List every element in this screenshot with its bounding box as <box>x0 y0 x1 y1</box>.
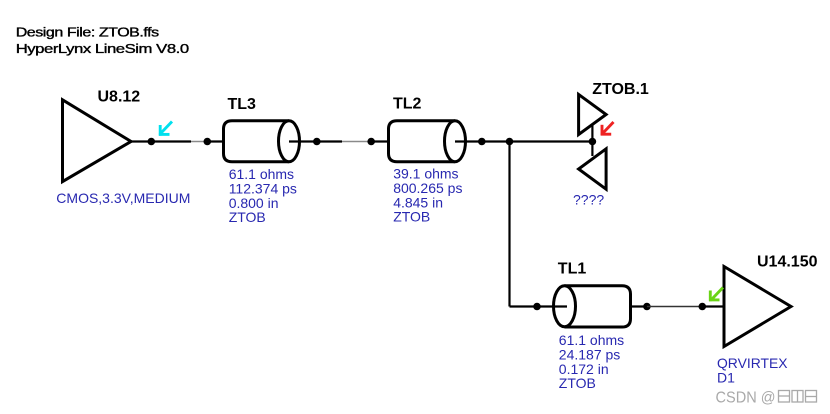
svg-text:HyperLynx LineSim V8.0: HyperLynx LineSim V8.0 <box>16 42 190 56</box>
svg-text:ZTOB.1: ZTOB.1 <box>592 81 649 98</box>
driver buffer U8.12 <box>63 100 132 182</box>
watermark CSDN <box>716 390 817 407</box>
svg-text:????: ???? <box>573 191 604 207</box>
wire TL1 to U14.150 (thin net part) <box>647 306 702 308</box>
T-junction node dot <box>506 138 514 146</box>
bidirectional pin ZTOB.1 <box>579 94 607 189</box>
junction dot at TL2 output <box>478 138 486 146</box>
cyan probe arrow <box>159 122 172 136</box>
svg-text:ZTOB: ZTOB <box>393 209 430 225</box>
wire corner to TL1 <box>510 305 538 307</box>
vertical wire down from T-junction <box>508 142 510 307</box>
svg-text:CMOS,3.3V,MEDIUM: CMOS,3.3V,MEDIUM <box>56 190 190 206</box>
transmission line TL3 <box>224 121 317 162</box>
svg-text:ZTOB: ZTOB <box>559 375 596 391</box>
junction dot at U14.150 input <box>699 303 707 311</box>
svg-text:U14.150: U14.150 <box>757 254 818 271</box>
junction dot at TL3 output <box>313 138 321 146</box>
junction dot at TL2 input <box>367 138 375 146</box>
wire T-junction to ZTOB.1 <box>510 140 593 142</box>
svg-text:TL2: TL2 <box>393 96 422 113</box>
junction dot at ZTOB.1 <box>589 138 597 146</box>
wire TL2 to T-junction <box>482 140 510 142</box>
receiver buffer U14.150 <box>724 267 791 347</box>
svg-text:ZTOB: ZTOB <box>229 209 266 225</box>
red probe arrow <box>601 122 614 136</box>
wire stub into TL3 <box>207 140 224 142</box>
svg-text:U8.12: U8.12 <box>98 88 141 105</box>
junction dot at TL3 input <box>204 138 212 146</box>
wire TL3 to TL2 (black part) <box>317 140 342 142</box>
svg-text:CSDN @: CSDN @ <box>716 390 776 407</box>
transmission line TL1 <box>537 286 647 327</box>
svg-text:D1: D1 <box>717 370 735 386</box>
green probe arrow <box>709 288 723 302</box>
wire into U14.150 <box>702 305 724 307</box>
wire stub into TL2 <box>371 140 388 142</box>
wire TL3 to TL2 (gray net part) <box>342 141 371 143</box>
svg-text:Design File: ZTOB.ffs: Design File: ZTOB.ffs <box>16 26 160 40</box>
junction dot at TL1 input <box>533 303 541 311</box>
svg-text:TL1: TL1 <box>558 261 587 278</box>
junction dot at U8.12 output <box>148 138 156 146</box>
svg-text:TL3: TL3 <box>228 96 257 113</box>
transmission line TL2 <box>389 121 482 162</box>
wire U8.12 to TL3 (gray net part) <box>191 141 207 143</box>
junction dot at TL1 output <box>643 303 651 311</box>
wire U8.12 output to TL3 (black part) <box>131 140 191 142</box>
